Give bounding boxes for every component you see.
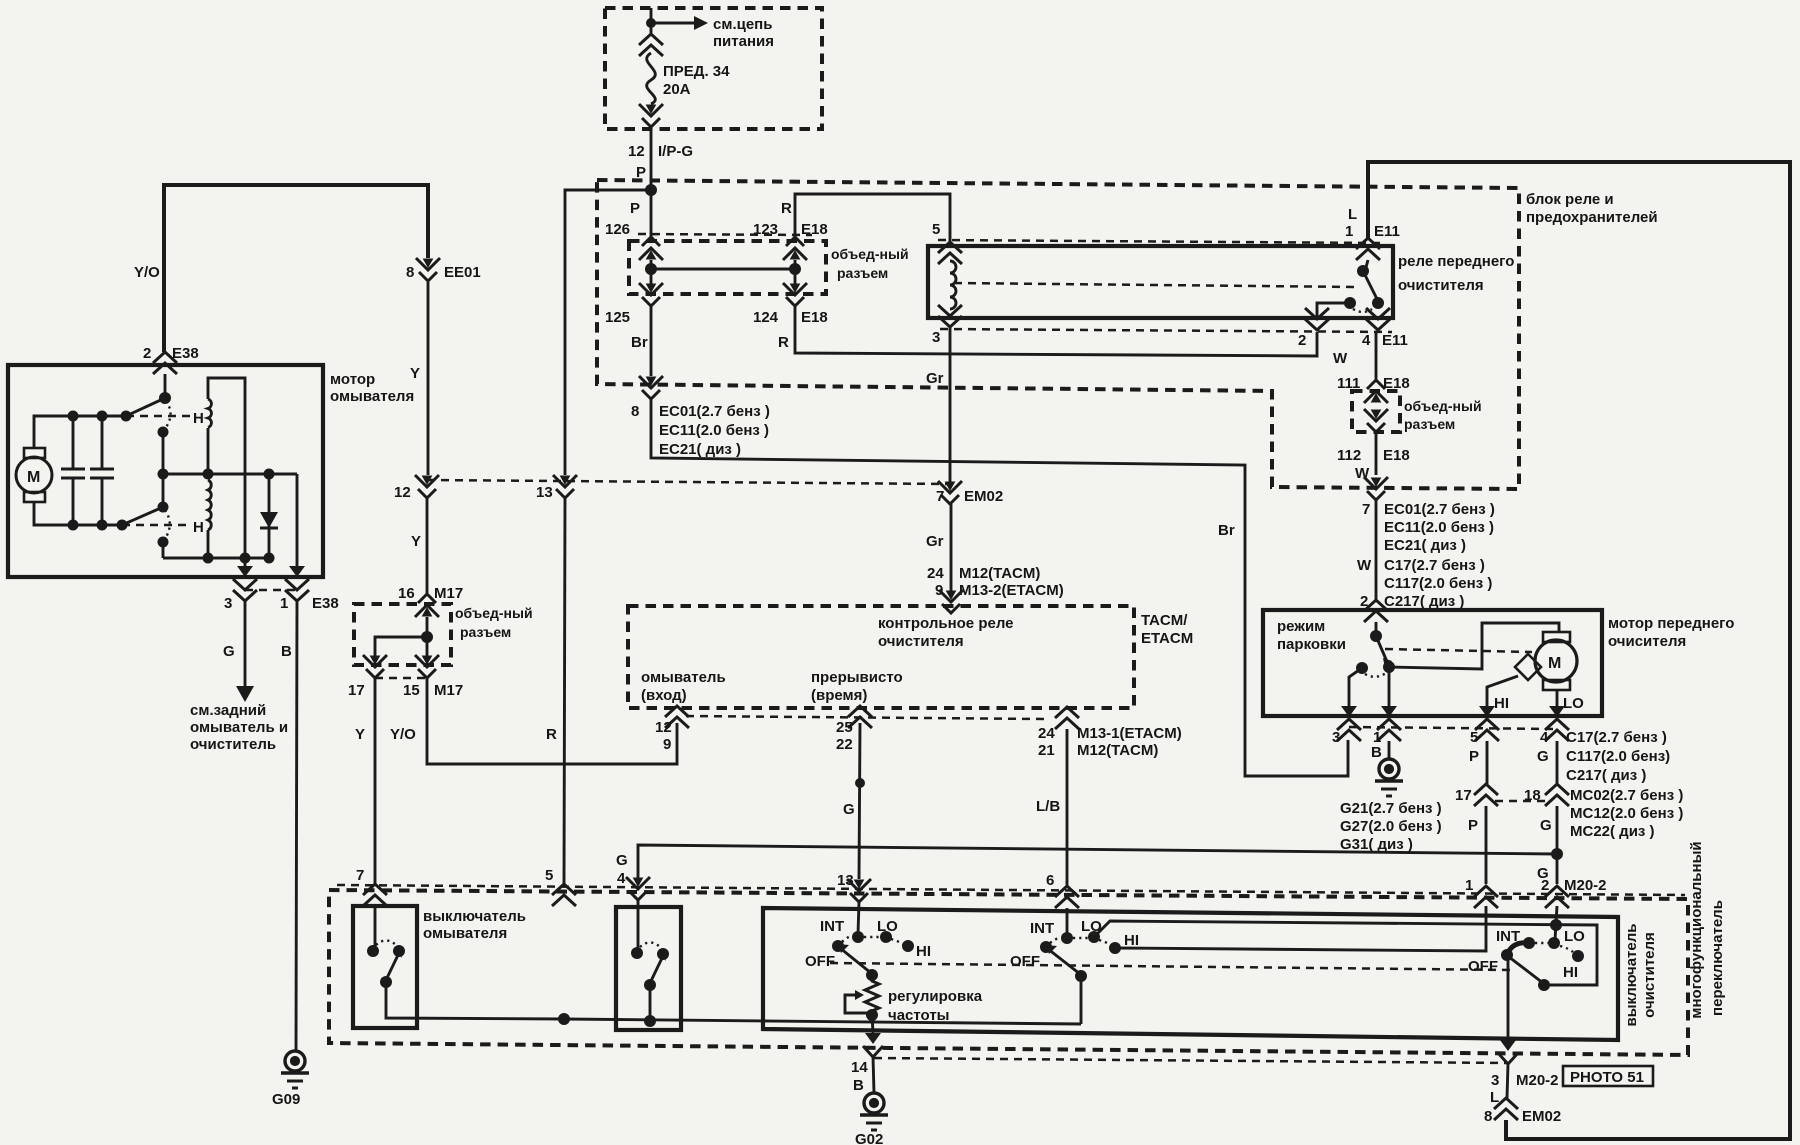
TACM control relay dashed box — [628, 606, 1134, 708]
svg-text:реле переднего: реле переднего — [1398, 253, 1514, 270]
wire middle row — [163, 473, 297, 476]
diode D1 — [268, 474, 271, 558]
switch C lever two — [1509, 957, 1543, 983]
node lower arc bottom — [158, 537, 169, 548]
svg-text:очистителя: очистителя — [878, 633, 964, 650]
node B LO — [1088, 931, 1100, 943]
node C OFF — [1501, 949, 1513, 961]
node park NO — [1383, 661, 1395, 673]
capacitor C2 — [101, 416, 104, 469]
wire Y from EE01 down — [427, 282, 430, 475]
switch B dotted positions — [1050, 938, 1061, 943]
node C LO — [1548, 937, 1560, 949]
wire pin1 branch — [296, 474, 299, 566]
svg-text:R: R — [781, 200, 792, 217]
svg-text:G21(2.7 бенз ): G21(2.7 бенз ) — [1340, 800, 1442, 817]
svg-text:Y/O: Y/O — [390, 726, 416, 743]
svg-text:8: 8 — [1484, 1108, 1492, 1125]
wire P pin5 to MC-17 — [1486, 741, 1489, 784]
wire LO route to switch C — [1094, 921, 1597, 985]
connector 2 E11 — [1305, 308, 1329, 330]
wire G MC-18 to M20-2 — [1556, 806, 1559, 884]
svg-text:5: 5 — [1470, 729, 1478, 746]
wire G into switch — [637, 900, 640, 950]
wire W down to parking box — [1375, 500, 1378, 600]
svg-text:мотор: мотор — [330, 371, 375, 388]
svg-text:EC21( диз ): EC21( диз ) — [1384, 537, 1466, 554]
svg-text:C217( диз ): C217( диз ) — [1566, 767, 1646, 784]
wire L to EM02 — [1507, 1064, 1508, 1098]
svg-text:123: 123 — [753, 221, 778, 238]
svg-text:выключатель: выключатель — [423, 908, 526, 925]
svg-text:контрольное реле: контрольное реле — [878, 615, 1014, 632]
resistor frequency adjust — [865, 975, 879, 1015]
park dotted arc — [1365, 673, 1386, 677]
wire B from resistor down — [872, 1015, 873, 1033]
wire R loop from E18-123 to relay pin5 — [795, 194, 950, 243]
svg-text:M12(TACM): M12(TACM) — [959, 565, 1040, 582]
svg-text:парковки: парковки — [1277, 636, 1346, 653]
wire relay NC to pin2 — [1317, 303, 1350, 318]
wire park common from pin2 — [1375, 622, 1378, 636]
motor lower switch lever — [122, 507, 163, 525]
svg-text:3: 3 — [1491, 1072, 1499, 1089]
svg-text:3: 3 — [1332, 729, 1340, 746]
svg-text:G09: G09 — [272, 1091, 300, 1108]
node timer wire dot — [855, 778, 865, 788]
svg-text:4: 4 — [1362, 332, 1371, 349]
wire motor top row — [34, 416, 126, 448]
svg-text:4: 4 — [1540, 729, 1549, 746]
svg-text:M17: M17 — [434, 682, 463, 699]
svg-text:12: 12 — [394, 484, 411, 501]
svg-text:25: 25 — [836, 719, 853, 736]
svg-text:H: H — [193, 519, 204, 536]
svg-text:24: 24 — [927, 565, 944, 582]
connector 112 E18 — [1364, 409, 1388, 432]
svg-text:Y: Y — [355, 726, 365, 743]
connector 25/22 TACM timer pin — [848, 706, 872, 728]
svg-text:22: 22 — [836, 736, 853, 753]
node bottom bus a — [203, 553, 214, 564]
wire Y/O top loop — [164, 185, 428, 352]
wire Br from EC01 to parking pin3 — [651, 399, 1348, 776]
wire G lever down — [649, 985, 652, 1021]
wire Y to washer switch — [374, 678, 377, 884]
svg-text:R: R — [546, 726, 557, 743]
node relay contact NO — [1372, 297, 1384, 309]
node top row a — [68, 411, 79, 422]
joint connector dashed box E18 — [629, 241, 826, 294]
svg-text:HI: HI — [1563, 964, 1578, 981]
svg-text:омывателя: омывателя — [423, 925, 507, 942]
motor upper dotted arc — [164, 401, 171, 430]
pin 14 B arrow pair — [865, 1033, 881, 1044]
park mechanical dashed link — [1385, 649, 1532, 652]
multifunction switch dashed box — [329, 890, 1688, 1055]
svg-text:I/P-G: I/P-G — [658, 143, 693, 160]
node A lever end — [866, 969, 878, 981]
harness dashed MC pins — [1495, 800, 1546, 803]
washer motor box — [8, 365, 323, 577]
svg-text:регулировка: регулировка — [888, 988, 983, 1005]
photo reference box — [1563, 1066, 1653, 1086]
svg-text:W: W — [1333, 350, 1348, 367]
svg-text:Br: Br — [631, 334, 648, 351]
svg-text:G: G — [223, 643, 235, 660]
svg-text:M20-2: M20-2 — [1564, 877, 1607, 894]
svg-text:PHOTO 51: PHOTO 51 — [1570, 1069, 1644, 1086]
node C INT — [1523, 937, 1535, 949]
svg-text:частоты: частоты — [888, 1007, 950, 1024]
wire B to ground G02 — [873, 1057, 874, 1093]
wire bus inside joint connector — [650, 260, 653, 284]
harness dashed parking pins — [1349, 727, 1557, 729]
coil field lower — [208, 480, 211, 530]
wire R main vertical — [565, 190, 651, 475]
svg-text:INT: INT — [820, 918, 844, 935]
svg-text:1: 1 — [1465, 877, 1473, 894]
wire bottom bus — [163, 557, 269, 560]
node G lever end — [644, 979, 656, 991]
connector 8 EE01 — [416, 258, 440, 281]
svg-text:разъем: разъем — [460, 624, 511, 640]
switch C dotted positions — [1535, 942, 1548, 944]
node park NC — [1356, 662, 1368, 674]
harness dashed between 17 and 15 — [375, 677, 427, 680]
connector 7 EM02 pair — [938, 481, 962, 504]
parking mode box — [1263, 610, 1602, 716]
node joint bus left — [645, 263, 657, 275]
wire Gr relay pin3 down — [949, 327, 952, 483]
svg-text:13: 13 — [837, 872, 854, 889]
node G route junction — [1550, 919, 1562, 931]
svg-text:HI: HI — [916, 943, 931, 960]
node B HI — [1109, 942, 1121, 954]
node G junction — [1551, 848, 1563, 860]
washer switch box — [353, 906, 417, 1028]
wire M17 bus — [426, 617, 429, 658]
svg-text:24: 24 — [1038, 725, 1055, 742]
svg-text:1: 1 — [1345, 223, 1353, 240]
connector 24/9 into TACM — [939, 590, 963, 613]
pin 4 parking arrow — [1549, 706, 1565, 717]
svg-text:M13-2(ETACM): M13-2(ETACM) — [959, 582, 1064, 599]
svg-text:7: 7 — [936, 488, 944, 505]
node R line junction — [558, 1013, 570, 1025]
wire Y from 12 to M17-16 — [426, 497, 429, 595]
svg-text:(время): (время) — [811, 687, 867, 704]
connector 15 M17 — [415, 655, 439, 678]
svg-text:2: 2 — [1298, 332, 1306, 349]
node G switch right — [657, 948, 669, 960]
svg-text:Y: Y — [411, 533, 421, 550]
motor upper dashed link — [126, 415, 190, 418]
fuse box dashed enclosure — [605, 8, 822, 129]
wire L/B TACM 24/21 down — [1066, 729, 1069, 886]
svg-text:прерывисто: прерывисто — [811, 669, 903, 686]
svg-text:OFF: OFF — [805, 953, 835, 970]
harness dashed through E11 bottom — [940, 329, 1392, 332]
svg-text:разъем: разъем — [837, 265, 888, 281]
svg-text:2: 2 — [143, 345, 151, 362]
node relay contact common — [1357, 265, 1369, 277]
svg-text:EC11(2.0 бенз ): EC11(2.0 бенз ) — [1384, 519, 1494, 536]
node washer lever end — [380, 976, 392, 988]
node bottom row c — [117, 520, 128, 531]
svg-text:B: B — [281, 643, 292, 660]
resistor feedback arrow box — [845, 995, 871, 1013]
washer switch lever — [386, 953, 399, 980]
node C lever end — [1538, 979, 1550, 991]
svg-text:G02: G02 — [855, 1131, 883, 1145]
svg-text:LO: LO — [1564, 928, 1585, 945]
svg-text:C17(2.7 бенз ): C17(2.7 бенз ) — [1566, 729, 1667, 746]
fuse F34 20A — [647, 53, 656, 104]
node A OFF — [832, 940, 844, 952]
relay switch lever — [1363, 271, 1378, 301]
svg-text:13: 13 — [536, 484, 553, 501]
svg-text:MC12(2.0 бенз ): MC12(2.0 бенз ) — [1570, 805, 1683, 822]
svg-text:3: 3 — [224, 595, 232, 612]
connector 124 E18 — [783, 283, 807, 306]
connector chevron above fuse — [639, 34, 663, 56]
svg-text:14: 14 — [851, 1059, 868, 1076]
svg-text:P: P — [1468, 817, 1478, 834]
svg-text:MC02(2.7 бенз ): MC02(2.7 бенз ) — [1570, 787, 1683, 804]
harness thin dashed top of switch box — [337, 885, 1685, 895]
svg-text:объед-ный: объед-ный — [455, 605, 533, 621]
svg-text:16: 16 — [398, 585, 415, 602]
node top row b — [97, 411, 108, 422]
node C HI — [1572, 950, 1584, 962]
harness dashed through E11 top — [938, 240, 1380, 243]
svg-text:112: 112 — [1337, 447, 1361, 464]
switch C lever on INT — [1507, 943, 1529, 955]
connector 18 MC02 — [1545, 784, 1569, 806]
svg-text:L: L — [1490, 1089, 1499, 1106]
svg-text:C117(2.0 бенз): C117(2.0 бенз) — [1566, 748, 1670, 765]
svg-text:объед-ный: объед-ный — [831, 246, 909, 262]
motor M washer — [16, 457, 52, 493]
node power junction — [646, 18, 656, 28]
wire power feed top — [650, 8, 653, 33]
svg-text:G27(2.0 бенз ): G27(2.0 бенз ) — [1340, 818, 1442, 835]
connector 17 MC02 — [1474, 784, 1498, 806]
svg-text:126: 126 — [605, 221, 630, 238]
relay and fuse block dashed outline — [597, 180, 1519, 489]
svg-text:очистителя: очистителя — [1641, 932, 1658, 1018]
wire B pin1 to ground — [1388, 741, 1391, 759]
node upper arc bottom — [158, 427, 169, 438]
svg-text:OFF: OFF — [1010, 953, 1040, 970]
wire OFF common down — [1507, 957, 1510, 1040]
svg-text:G: G — [616, 852, 628, 869]
wire upper coil return — [208, 378, 245, 558]
svg-text:C17(2.7 бенз ): C17(2.7 бенз ) — [1384, 557, 1485, 574]
node B INT — [1061, 932, 1073, 944]
svg-text:M13-1(ETACM): M13-1(ETACM) — [1077, 725, 1182, 742]
svg-text:очисителя: очисителя — [1608, 633, 1686, 650]
svg-text:E38: E38 — [172, 345, 199, 362]
connector 125 — [639, 283, 663, 306]
pin 3 parking arrow — [1341, 706, 1357, 717]
svg-text:12: 12 — [628, 143, 645, 160]
connector 3 E11 coil bottom — [938, 305, 962, 327]
svg-text:M: M — [1548, 655, 1561, 672]
connector chevron below fuse — [639, 104, 663, 127]
node G lever on R line — [644, 1015, 656, 1027]
pin 1 parking arrow — [1381, 706, 1397, 717]
connector 2 C217 entering parking box — [1364, 600, 1388, 622]
wire B lever to R line — [1080, 976, 1083, 1024]
svg-text:переключатель: переключатель — [1709, 900, 1726, 1016]
wire 6 into INT B — [1066, 908, 1069, 935]
wire LO from motor — [1556, 690, 1559, 706]
svg-text:M: M — [27, 469, 40, 486]
wire motor bottom row — [34, 502, 122, 525]
harness dashed between pins 3 1 — [245, 589, 297, 592]
node middle row c — [264, 469, 275, 480]
svg-text:ПРЕД. 34: ПРЕД. 34 — [663, 63, 730, 80]
svg-text:EC01(2.7 бенз ): EC01(2.7 бенз ) — [1384, 501, 1495, 518]
wire Br from 125 to EC01 — [650, 306, 653, 376]
wire M17 branch to 17 — [375, 637, 427, 656]
svg-text:15: 15 — [403, 682, 420, 699]
svg-text:объед-ный: объед-ный — [1404, 398, 1482, 414]
capacitor C1 — [72, 416, 75, 469]
wire G TACM 25/22 down — [859, 723, 860, 879]
node lower lever top — [158, 502, 169, 513]
svg-text:B: B — [1371, 744, 1382, 761]
wire park NO to pin1 — [1388, 667, 1391, 706]
washer switch dotted arc — [376, 941, 396, 946]
svg-text:очиститель: очиститель — [190, 736, 276, 753]
wire P MC-17 to M20-1 — [1485, 806, 1488, 884]
wire G to rear washer — [244, 601, 247, 688]
wire HI from flag — [1487, 676, 1518, 706]
switch B lever — [1048, 949, 1080, 974]
svg-text:Y: Y — [410, 365, 420, 382]
svg-text:Br: Br — [1218, 522, 1235, 539]
svg-text:21: 21 — [1038, 742, 1055, 759]
svg-text:17: 17 — [348, 682, 365, 699]
svg-text:C217( диз ): C217( диз ) — [1384, 593, 1464, 610]
node bottom bus c — [264, 553, 275, 564]
svg-text:EE01: EE01 — [444, 264, 481, 281]
svg-text:9: 9 — [663, 736, 671, 753]
harness dashed 14 to M20 — [874, 1058, 1508, 1063]
svg-text:4: 4 — [617, 870, 626, 887]
node B lever end — [1075, 970, 1087, 982]
svg-text:OFF: OFF — [1468, 958, 1498, 975]
wire Y into washer switch — [374, 906, 377, 948]
svg-text:EC11(2.0 бенз ): EC11(2.0 бенз ) — [659, 422, 769, 439]
wire W E18-112 down — [1375, 432, 1378, 475]
svg-text:124: 124 — [753, 309, 779, 326]
svg-text:мотор переднего: мотор переднего — [1608, 615, 1734, 632]
svg-text:6: 6 — [1046, 872, 1054, 889]
svg-text:Gr: Gr — [926, 370, 944, 387]
svg-text:EM02: EM02 — [964, 488, 1003, 505]
svg-text:разъем: разъем — [1404, 416, 1455, 432]
svg-text:E11: E11 — [1382, 332, 1408, 349]
wiper switch solid box — [763, 908, 1618, 1040]
svg-text:5: 5 — [932, 221, 940, 238]
wire pin3 branch — [244, 558, 247, 566]
svg-text:L/B: L/B — [1036, 798, 1060, 815]
svg-text:ETACM: ETACM — [1141, 630, 1193, 647]
joint connector dashed box M17 — [354, 604, 451, 665]
harness dashed through 126 123 — [638, 234, 812, 235]
svg-text:B: B — [853, 1077, 864, 1094]
svg-text:выключатель: выключатель — [1623, 924, 1640, 1027]
svg-text:R: R — [778, 334, 789, 351]
svg-text:MC22( диз ): MC22( диз ) — [1570, 823, 1655, 840]
svg-text:Gr: Gr — [926, 533, 944, 550]
wire park NO to motor top — [1389, 623, 1559, 669]
wire R from E18-124 to relay pin2 — [795, 306, 1317, 356]
connector 4 E11 — [1366, 308, 1390, 330]
svg-text:E18: E18 — [1383, 447, 1410, 464]
svg-text:12: 12 — [655, 719, 672, 736]
svg-text:E38: E38 — [312, 595, 339, 612]
svg-text:P: P — [1469, 748, 1479, 765]
svg-text:17: 17 — [1455, 787, 1472, 804]
svg-text:P: P — [630, 200, 640, 217]
svg-text:Y/O: Y/O — [134, 264, 160, 281]
connector 17 M17 — [363, 655, 387, 678]
connector 7 EC01 pair right — [1364, 477, 1388, 500]
svg-text:E11: E11 — [1374, 223, 1400, 240]
node A HI — [902, 940, 914, 952]
svg-text:1: 1 — [280, 595, 288, 612]
wire HI route to P — [1115, 906, 1486, 951]
svg-text:E18: E18 — [801, 309, 828, 326]
pin 1 E38 arrow — [289, 566, 305, 577]
wire 13 into INT — [858, 902, 859, 934]
svg-text:см.задний: см.задний — [190, 702, 266, 719]
wire to bottom bus — [162, 542, 165, 558]
wire center vertical — [162, 432, 165, 507]
motor brush flag — [1515, 654, 1541, 680]
wire L top right loop — [1368, 162, 1790, 1139]
svg-text:блок реле и: блок реле и — [1526, 191, 1614, 208]
svg-text:8: 8 — [631, 403, 639, 420]
svg-text:125: 125 — [605, 309, 630, 326]
wire R common line — [564, 1019, 1081, 1024]
svg-text:EC21( диз ): EC21( диз ) — [659, 441, 741, 458]
G switch dotted arc — [640, 943, 660, 948]
svg-text:20А: 20А — [663, 81, 691, 98]
wire G long horizontal — [638, 845, 1557, 885]
svg-text:G: G — [1540, 817, 1552, 834]
svg-text:H: H — [193, 410, 204, 427]
wire Gr to TACM — [950, 504, 953, 594]
connector 12/9 TACM washer pin — [665, 706, 689, 728]
node A LO — [880, 931, 892, 943]
svg-text:5: 5 — [545, 867, 553, 884]
svg-text:HI: HI — [1124, 932, 1139, 949]
svg-text:LO: LO — [1563, 695, 1584, 712]
node bottom row a — [68, 520, 79, 531]
svg-text:W: W — [1357, 557, 1372, 574]
node washer contact right — [393, 945, 405, 957]
wire P from fuse to relay block — [650, 128, 653, 239]
svg-text:режим: режим — [1277, 618, 1325, 635]
switch A lever — [840, 948, 871, 973]
node P junction — [645, 184, 657, 196]
